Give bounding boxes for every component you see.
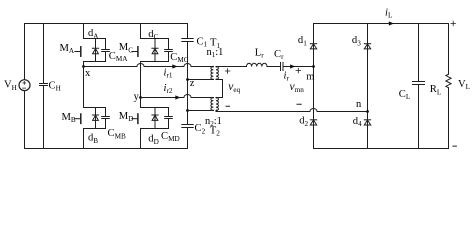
svg-text:x: x	[85, 68, 91, 79]
svg-text:d1: d1	[298, 35, 307, 47]
svg-text:dA: dA	[88, 28, 99, 40]
svg-text:T2: T2	[210, 125, 220, 137]
svg-text:MA: MA	[60, 43, 75, 55]
svg-text:RL: RL	[430, 84, 441, 96]
svg-text:dB: dB	[88, 133, 98, 145]
svg-text:d4: d4	[353, 116, 362, 128]
svg-text:m: m	[306, 72, 314, 83]
svg-text:CMB: CMB	[108, 128, 126, 140]
svg-text:Cr: Cr	[274, 49, 284, 61]
svg-text:n1:1: n1:1	[207, 47, 224, 59]
svg-text:dD: dD	[148, 134, 159, 146]
svg-text:CMC: CMC	[170, 52, 188, 64]
svg-text:VH: VH	[4, 80, 17, 92]
svg-text:d3: d3	[352, 35, 361, 47]
svg-text:d2: d2	[299, 116, 308, 128]
svg-text:MD: MD	[119, 111, 134, 123]
svg-text:Lr: Lr	[255, 47, 264, 59]
svg-text:ir2: ir2	[164, 83, 173, 95]
svg-text:ir1: ir1	[164, 68, 173, 80]
svg-text:vmn: vmn	[290, 81, 305, 94]
svg-text:CL: CL	[399, 89, 410, 101]
svg-text:dC: dC	[148, 29, 158, 41]
svg-text:z: z	[190, 78, 195, 89]
svg-text:y: y	[134, 92, 140, 103]
svg-text:CMD: CMD	[161, 131, 180, 143]
svg-text:C2: C2	[195, 123, 206, 135]
svg-text:VL: VL	[458, 79, 470, 91]
svg-text:iL: iL	[385, 7, 392, 19]
svg-text:CH: CH	[49, 80, 61, 92]
svg-text:n: n	[356, 99, 362, 110]
svg-text:MB: MB	[62, 112, 76, 124]
svg-text:MC: MC	[119, 42, 133, 54]
svg-text:veq: veq	[228, 81, 240, 94]
